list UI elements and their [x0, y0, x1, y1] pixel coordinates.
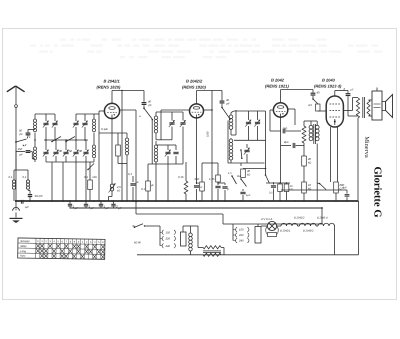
wire L4 bottom down	[126, 164, 128, 202]
svg-text:50: 50	[69, 149, 73, 153]
svg-text:0,15: 0,15	[178, 175, 184, 179]
choke L9 left	[13, 170, 15, 180]
capacitor C1 50pF	[27, 135, 29, 136]
svg-text:1,25: 1,25	[209, 177, 215, 181]
heater winding B2042/1	[277, 225, 281, 227]
wire tube3 grid left	[270, 109, 273, 111]
svg-text:kΩ: kΩ	[290, 188, 293, 191]
resistor R16 10k cluster	[266, 182, 290, 184]
junction dots on bus	[15, 200, 17, 202]
wire top rail 1	[112, 90, 144, 92]
svg-text:0,1μF: 0,1μF	[101, 127, 108, 131]
svg-text:(RENS 1821): (RENS 1821)	[265, 84, 289, 89]
coil L4	[126, 133, 128, 138]
svg-text:MΩ: MΩ	[93, 176, 97, 179]
resistor R8 20k	[303, 143, 305, 156]
svg-text:pF: pF	[148, 103, 153, 107]
capacitor C 1uF at 86	[85, 201, 87, 204]
coil L3	[93, 140, 95, 145]
capacitor C19 40pF	[221, 91, 223, 101]
wire top rail 2	[197, 90, 223, 92]
svg-text:Mittel: Mittel	[20, 245, 26, 248]
resistor lamp shunt	[268, 233, 277, 237]
svg-text:Kurz: Kurz	[20, 255, 26, 258]
capacitor C31 5uF	[224, 183, 226, 185]
svg-text:(RENS 1823 d): (RENS 1823 d)	[314, 84, 342, 89]
svg-text:Schalter: Schalter	[20, 240, 29, 243]
wire antenna down-lead	[15, 108, 17, 202]
svg-text:0,1: 0,1	[84, 175, 88, 179]
capacitor C32 0,5	[273, 183, 275, 185]
coil L5 osc	[155, 112, 157, 116]
switch Ra	[240, 178, 242, 180]
heater winding B2043/1	[316, 225, 318, 227]
svg-text:1,5: 1,5	[228, 172, 232, 175]
wire tube1 grid left	[99, 110, 105, 112]
switch lever band2	[221, 107, 223, 109]
switch contact 2	[23, 145, 24, 146]
svg-text:40: 40	[247, 169, 251, 173]
svg-text:Ω: Ω	[197, 182, 199, 185]
capacitor C24 700pF	[270, 130, 281, 132]
potentiometer P1 cathode 2,5k	[110, 184, 113, 187]
selector2 box	[255, 227, 261, 244]
svg-text:pF: pF	[19, 152, 24, 156]
trimmer C12 30	[85, 140, 87, 150]
trimmer C8 30	[45, 140, 47, 150]
svg-text:550: 550	[195, 177, 200, 181]
wire tube1 cathode	[111, 118, 113, 184]
svg-text:pF: pF	[19, 132, 24, 136]
svg-text:Minerva: Minerva	[363, 136, 370, 158]
wire C1 to coil L1	[28, 129, 35, 131]
resistor R15 1,25k	[217, 163, 219, 175]
svg-text:kΩ: kΩ	[117, 190, 120, 193]
svg-text:30: 30	[79, 149, 83, 153]
trimmer C16	[180, 122, 185, 124]
page frame	[3, 29, 397, 300]
svg-text:μF: μF	[135, 181, 139, 184]
svg-text:B 2042: B 2042	[271, 78, 285, 83]
barretter resistor upper	[197, 226, 199, 248]
svg-text:kΩ: kΩ	[308, 162, 311, 165]
wire band2 lower rail	[234, 139, 266, 141]
band switch table	[18, 238, 105, 259]
capacitor C27 6uF tone	[347, 91, 349, 93]
wire block A bottom rail	[46, 161, 94, 163]
svg-text:2μF: 2μF	[283, 140, 289, 144]
trimmer C10 50	[65, 140, 67, 150]
switch S5 osc	[240, 149, 242, 151]
svg-text:B 2042/1: B 2042/1	[280, 230, 291, 233]
trimmer C9	[55, 140, 57, 150]
svg-text:4μF: 4μF	[342, 186, 347, 190]
svg-text:240: 240	[165, 245, 171, 248]
svg-text:pF: pF	[226, 102, 231, 106]
wire tube3 cathode down	[280, 117, 282, 183]
svg-text:μF: μF	[350, 89, 354, 92]
wire C2 to coil L1b	[31, 152, 33, 159]
capacitor C23 1uF	[242, 189, 244, 191]
svg-text:μF: μF	[150, 184, 154, 187]
capacitor C 1uF at 70	[69, 201, 71, 204]
capacitor C28 4uF	[345, 189, 347, 191]
tube U4 B2043 output	[326, 96, 343, 127]
wire top rail 3	[281, 89, 313, 91]
wire block A top	[35, 113, 55, 115]
wire selector2 top	[233, 223, 258, 225]
resistor R5 0,1	[147, 164, 149, 181]
resistor R14 550	[201, 163, 203, 182]
trimmer C5	[52, 122, 57, 124]
tube U2 B2042/2	[190, 104, 204, 118]
wire block A2 top	[76, 113, 94, 115]
barretter core	[203, 250, 221, 252]
trimmer C21	[255, 121, 260, 123]
wave switch bar	[44, 139, 88, 141]
barretter resistor lower on bus	[203, 253, 221, 256]
wire tube4 anode to TR2	[343, 110, 352, 112]
coil L1b lower left	[34, 140, 36, 147]
resistor R17	[279, 182, 281, 185]
svg-text:Lang: Lang	[20, 250, 26, 253]
coil L6	[155, 141, 157, 145]
trimmer C6	[73, 122, 78, 124]
pilot lamp 4V 0,1A	[257, 243, 259, 247]
wire grid T3 feed	[231, 134, 236, 136]
resistor R18 10k	[286, 182, 288, 185]
svg-text:B 2043 d: B 2043 d	[317, 217, 328, 220]
svg-text:B 2042/2: B 2042/2	[294, 217, 305, 220]
svg-text:0,80: 0,80	[206, 131, 210, 137]
coil L7	[230, 113, 232, 116]
wire tube4 anode top	[334, 91, 336, 97]
capacitor C3 50mF electrolytic	[28, 190, 30, 192]
wire bus1 to heater feed	[135, 202, 137, 215]
resistor R3 0,1 MOhm grid leak	[89, 162, 91, 180]
svg-text:(RENS 1820): (RENS 1820)	[97, 85, 121, 90]
svg-text:μF: μF	[199, 186, 203, 189]
wire screen vertical	[121, 91, 123, 202]
wire B+ feed line	[281, 189, 345, 191]
trimmer C4	[43, 122, 48, 124]
capacitor C29 0,1uF	[132, 176, 134, 182]
svg-text:1μF: 1μF	[246, 194, 251, 197]
wire TR2 primary down	[357, 118, 359, 201]
switch S mains	[133, 225, 135, 227]
svg-text:0,5: 0,5	[269, 192, 273, 195]
wire tube1 anode right	[119, 109, 136, 111]
svg-text:4,5: 4,5	[308, 103, 312, 107]
svg-text:B 2043/2: B 2043/2	[303, 230, 314, 233]
capacitor C14 40pF coupling	[143, 91, 145, 102]
switch S6 AVC	[87, 169, 89, 171]
svg-text:240: 240	[238, 240, 244, 243]
svg-text:μF: μF	[117, 206, 122, 210]
wire screen2 vertical	[211, 91, 213, 202]
TR2 core	[362, 97, 364, 118]
wire right vertical	[358, 201, 360, 255]
trimmer C15	[169, 122, 174, 124]
wire block A down leads	[51, 162, 53, 201]
svg-text:0,1: 0,1	[128, 172, 132, 176]
capacitor C25 2uF	[281, 145, 291, 147]
trimmer C20	[246, 121, 251, 123]
svg-text:μF: μF	[90, 206, 95, 210]
wire TR1 secondary down	[316, 144, 318, 202]
voltage selector 2	[236, 227, 238, 232]
svg-text:0,1: 0,1	[141, 187, 145, 191]
svg-text:150: 150	[166, 232, 171, 235]
wire tube3 top	[280, 90, 282, 103]
power bottom bus	[137, 254, 359, 256]
svg-text:B 2042/1: B 2042/1	[104, 79, 121, 84]
switch lever band	[143, 107, 145, 109]
output transformer TR2 primary	[356, 98, 359, 118]
svg-text:0,1: 0,1	[9, 175, 13, 179]
svg-text:30: 30	[59, 149, 63, 153]
wire block B bottom rail	[148, 163, 183, 165]
wire grid T2 feed	[156, 139, 161, 141]
svg-text:(RENS 1820): (RENS 1820)	[182, 85, 206, 90]
wire L5 top rail	[156, 111, 183, 113]
capacitor C30	[196, 183, 198, 184]
svg-text:kΩ: kΩ	[247, 174, 250, 177]
capacitor C26 40pF grid	[312, 90, 314, 93]
coil L2	[93, 114, 95, 119]
wire block C bottom rail	[228, 162, 265, 164]
switch S1 antenna selector	[15, 141, 17, 143]
svg-text:B 2042/2: B 2042/2	[186, 79, 203, 84]
svg-text:10: 10	[308, 183, 312, 187]
coil L mains	[190, 226, 192, 233]
selector box	[181, 232, 187, 246]
capacitor on bus at ground	[20, 200, 22, 204]
svg-text:4 V 0,1 A: 4 V 0,1 A	[261, 217, 273, 221]
resistor R10 grid stopper 45	[312, 98, 314, 100]
main bus chassis	[15, 200, 359, 202]
trimmer C11	[75, 140, 77, 150]
svg-text:150: 150	[239, 229, 244, 232]
svg-text:0,1: 0,1	[23, 175, 27, 179]
svg-text:220: 220	[238, 234, 244, 237]
svg-text:Gloriette G: Gloriette G	[372, 166, 383, 217]
svg-text:1μF: 1μF	[25, 206, 30, 209]
tube U1 B2042/1	[104, 103, 119, 118]
svg-text:2: 2	[24, 143, 27, 147]
speaker LS	[376, 88, 378, 92]
AF transformer TR1	[310, 121, 312, 125]
wire L7 top rail	[231, 111, 234, 113]
capacitor C18	[173, 151, 178, 153]
wire tube2 top	[196, 91, 198, 104]
svg-text:150: 150	[18, 147, 23, 151]
wire bus to power right	[321, 208, 323, 224]
coil L8	[230, 138, 232, 139]
svg-text:50 mF: 50 mF	[35, 194, 44, 198]
svg-text:220: 220	[165, 238, 171, 241]
resistor R6 40k	[240, 163, 242, 166]
resistor R4 parallel damping	[117, 133, 119, 145]
wire tube1 top lead	[111, 91, 113, 104]
svg-text:B 2043: B 2043	[322, 78, 336, 83]
main bus 2	[70, 207, 323, 209]
trimmer C7	[82, 122, 87, 124]
capacitor C 1uF at 101	[100, 201, 102, 204]
wire band2 right vertical	[265, 111, 267, 175]
wire tube2 anode	[204, 109, 213, 111]
heater winding B2042/2	[298, 225, 300, 227]
wire tube2 cathode down	[196, 118, 198, 183]
svg-text:μF: μF	[74, 206, 79, 210]
wire power right vertical	[334, 226, 336, 255]
svg-text:700: 700	[283, 127, 288, 131]
switch S4	[231, 175, 233, 177]
wire left net	[14, 169, 28, 171]
svg-text:40: 40	[317, 91, 321, 95]
wire tube2 cathode join	[196, 182, 197, 183]
trimmer C22	[246, 144, 248, 148]
ground left with arrester	[15, 202, 17, 207]
switch S2	[317, 182, 319, 185]
resistor R11 680	[334, 182, 339, 193]
tube U3 B2042	[273, 103, 287, 117]
antenna	[7, 86, 16, 92]
svg-text:20: 20	[307, 157, 312, 161]
resistor R13	[185, 162, 187, 181]
wire tube3 anode	[288, 108, 295, 110]
resistor R9	[302, 182, 307, 193]
svg-text:Ra: Ra	[237, 174, 241, 178]
wire TR1 top rail	[304, 120, 317, 122]
resistor R7 anode load	[295, 124, 304, 126]
capacitor C 1uF at 113.5	[113, 201, 115, 204]
coil L1 antenna coil	[34, 114, 36, 119]
wire tube4 cathode leads	[330, 127, 332, 182]
wire down leads B	[155, 164, 157, 201]
svg-text:60 W: 60 W	[134, 241, 141, 245]
choke L10 left	[27, 170, 29, 180]
wire grid tube4	[318, 110, 327, 112]
voltage selector 1	[162, 230, 164, 235]
TR2 secondary	[367, 100, 370, 116]
capacitor C2 150pF	[16, 151, 25, 153]
trimmer C17	[167, 149, 169, 152]
svg-text:μF: μF	[105, 206, 110, 210]
wire secondary to speaker	[369, 99, 373, 101]
